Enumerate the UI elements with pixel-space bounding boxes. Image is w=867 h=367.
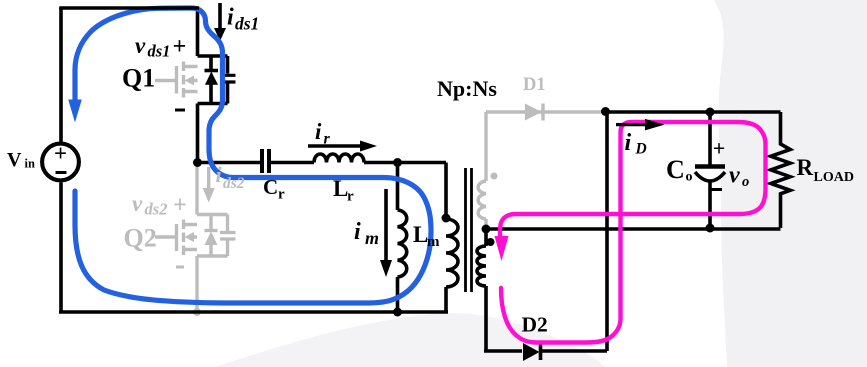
svg-text:i: i bbox=[227, 5, 234, 31]
svg-text:o: o bbox=[686, 170, 693, 185]
svg-text:+: + bbox=[713, 136, 726, 161]
svg-text:in: in bbox=[25, 157, 35, 171]
svg-text:m: m bbox=[365, 228, 379, 248]
svg-text:C: C bbox=[263, 175, 278, 199]
svg-text:+: + bbox=[54, 141, 67, 166]
svg-text:r: r bbox=[324, 131, 331, 148]
svg-text:D2: D2 bbox=[522, 313, 548, 337]
svg-text:R: R bbox=[797, 155, 814, 180]
svg-text:ds1: ds1 bbox=[235, 14, 259, 34]
svg-text:v: v bbox=[135, 33, 146, 58]
svg-text:D1: D1 bbox=[523, 75, 546, 95]
svg-text:v: v bbox=[132, 191, 143, 216]
svg-text:i: i bbox=[216, 162, 223, 187]
svg-text:+: + bbox=[173, 34, 187, 60]
svg-text:C: C bbox=[666, 155, 685, 184]
svg-text:i: i bbox=[354, 219, 361, 245]
svg-text:Q2: Q2 bbox=[124, 224, 157, 253]
svg-text:ds1: ds1 bbox=[148, 42, 171, 61]
svg-text:m: m bbox=[427, 234, 440, 250]
svg-text:ds2: ds2 bbox=[223, 175, 245, 192]
svg-text:r: r bbox=[278, 187, 285, 203]
svg-text:Np:Ns: Np:Ns bbox=[437, 76, 497, 101]
svg-text:ds2: ds2 bbox=[145, 200, 168, 219]
svg-text:+: + bbox=[173, 193, 187, 219]
svg-text:v: v bbox=[729, 163, 740, 189]
svg-text:Q1: Q1 bbox=[122, 64, 155, 93]
svg-text:LOAD: LOAD bbox=[814, 170, 854, 185]
svg-text:V: V bbox=[7, 149, 22, 171]
svg-text:i: i bbox=[315, 119, 322, 144]
svg-text:r: r bbox=[347, 189, 354, 205]
svg-text:o: o bbox=[742, 174, 749, 190]
svg-text:i: i bbox=[625, 130, 632, 156]
svg-text:D: D bbox=[635, 141, 647, 158]
